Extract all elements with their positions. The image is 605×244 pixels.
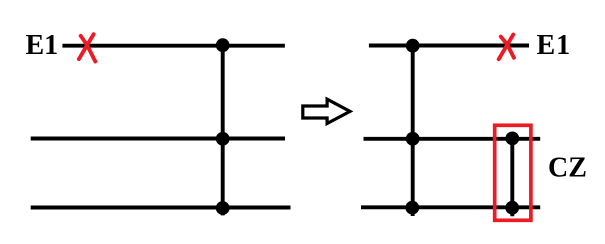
node: CZ control dot on bottom qubit <box>505 201 519 215</box>
wire: right circuit middle qubit line <box>364 137 541 141</box>
svg-text:E1: E1 <box>537 30 572 61</box>
wire: left circuit bottom qubit line <box>31 206 291 210</box>
wire: left circuit vertical control line <box>221 45 225 215</box>
implication arrow (block arrow between circuits) <box>303 99 350 123</box>
svg-text:CZ: CZ <box>548 153 587 184</box>
node: right circuit control dot top qubit <box>406 39 420 53</box>
red highlight box around CZ gate <box>495 125 531 220</box>
svg-text:E1: E1 <box>26 30 59 61</box>
error X mark on left top wire <box>79 34 95 61</box>
wire: left circuit top qubit line <box>62 44 285 48</box>
node: left circuit control dot top qubit <box>216 38 230 52</box>
wire: right circuit bottom qubit line <box>361 205 540 209</box>
error X mark on right top wire <box>499 35 514 60</box>
wire: left circuit middle qubit line <box>31 137 285 141</box>
wire: CZ gate vertical line (inside red box) <box>510 138 514 216</box>
wire: right circuit top qubit line <box>369 44 529 48</box>
node: right circuit control dot bottom qubit <box>405 201 419 215</box>
node: left circuit control dot bottom qubit <box>216 201 230 215</box>
node: right circuit control dot middle qubit <box>406 132 420 146</box>
node: left circuit control dot middle qubit <box>216 132 230 146</box>
wire: right circuit vertical control line <box>411 46 415 216</box>
node: CZ control dot on middle qubit <box>505 132 519 146</box>
